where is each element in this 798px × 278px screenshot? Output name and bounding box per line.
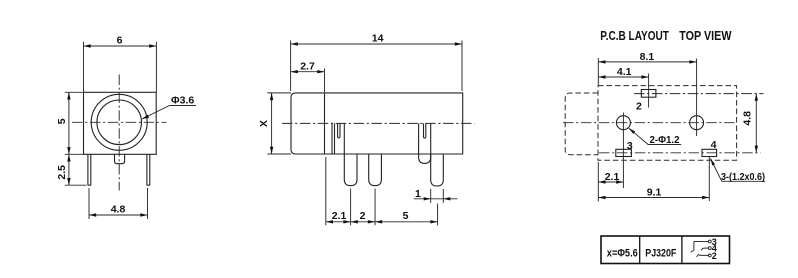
barrel face line	[324, 93, 326, 154]
horizontal center line	[72, 121, 167, 123]
svg-text:3-(1.2x0.6): 3-(1.2x0.6)	[721, 172, 765, 183]
dimension 5 arrows	[67, 92, 70, 99]
front center pin	[115, 154, 125, 163]
pcb body outline dashed	[598, 86, 737, 161]
svg-text:2.5: 2.5	[56, 165, 68, 180]
svg-text:2.1: 2.1	[332, 210, 347, 222]
dimension 4.8 extension lines	[89, 188, 148, 219]
svg-text:2-Φ1.2: 2-Φ1.2	[650, 134, 680, 146]
svg-text:9.1: 9.1	[647, 186, 662, 198]
dimension 8.1 arrows	[598, 60, 605, 63]
inner circle phi3.6 hole	[97, 100, 142, 145]
pcb hole 2 (2-phi1.2)	[690, 116, 704, 130]
label 3-(1.2x0.6) leader	[711, 159, 766, 182]
bottom chain dimension line	[326, 221, 438, 223]
outer circle (bushing)	[91, 94, 147, 150]
dimension 14 extension lines	[291, 41, 462, 92]
pad 3	[616, 149, 632, 156]
side leg C	[431, 154, 444, 186]
jack schematic pin 3 arm	[691, 242, 694, 253]
svg-text:2.1: 2.1	[605, 171, 620, 183]
dimension 2.7 extension line	[324, 69, 326, 93]
dimension 2.7 line	[291, 71, 325, 73]
dimension 4.1 arrows	[598, 75, 605, 78]
left contact lines	[332, 123, 344, 154]
svg-text:PJ320F: PJ320F	[645, 248, 676, 260]
title block divider 1	[639, 236, 641, 264]
dimension 4.8 arrows	[89, 213, 96, 216]
dimension 9.1 arrows	[598, 196, 605, 199]
dimension 9.1 line	[598, 197, 709, 199]
svg-text:TOP VIEW: TOP VIEW	[679, 29, 731, 43]
jack schematic pin 3 line	[694, 241, 708, 243]
svg-text:X: X	[258, 120, 270, 127]
label phi3.6 arrowhead	[142, 115, 149, 119]
jack schematic pin 4 hook and line	[701, 248, 708, 250]
dimension 14 arrows	[291, 42, 298, 45]
side leg A	[344, 154, 357, 186]
pad2 row center line	[634, 93, 764, 95]
dimension 8.1 line	[598, 61, 696, 63]
front right leg	[147, 154, 150, 185]
svg-text:3: 3	[627, 140, 633, 152]
svg-text:5: 5	[56, 118, 68, 124]
svg-text:2: 2	[360, 210, 366, 222]
title block divider 2	[681, 236, 683, 264]
dimension 6 line	[84, 45, 157, 47]
svg-text:6: 6	[117, 35, 123, 47]
dimension 8.1 extension line	[597, 58, 599, 85]
front left leg	[88, 154, 91, 185]
dimension X arrows	[270, 93, 273, 100]
jack schematic pin 2 spring and line	[697, 255, 709, 257]
dimension 1 extension lines	[431, 189, 444, 203]
svg-text:14: 14	[372, 33, 384, 45]
vertical center line	[118, 75, 120, 191]
svg-text:5: 5	[403, 210, 409, 222]
chain arrows 2	[351, 220, 358, 223]
chain arrows 5	[375, 220, 382, 223]
dimension 4.8 line	[89, 214, 148, 216]
svg-text:P.C.B LAYOUT: P.C.B LAYOUT	[600, 29, 669, 43]
dimension 4.1 line	[598, 76, 648, 78]
svg-text:2: 2	[712, 251, 717, 261]
svg-text:x=Φ5.6: x=Φ5.6	[607, 248, 638, 260]
pads row center line	[599, 152, 761, 154]
dimension X extension lines	[267, 93, 291, 154]
svg-text:4.8: 4.8	[111, 203, 126, 215]
svg-text:4.1: 4.1	[617, 66, 632, 78]
svg-text:4.8: 4.8	[742, 111, 754, 126]
title block border	[601, 236, 730, 264]
pad 4	[702, 149, 717, 156]
jack schematic pin 2 circle	[708, 254, 711, 257]
label 2-phi1.2 arrowhead	[629, 128, 635, 134]
svg-text:4: 4	[711, 139, 717, 151]
svg-text:2: 2	[636, 100, 642, 112]
dimension 2.5 arrows	[67, 154, 70, 161]
front view body	[84, 92, 157, 154]
svg-text:8.1: 8.1	[640, 51, 655, 63]
label 2-phi1.2 leader	[629, 128, 681, 144]
side view body	[291, 93, 463, 154]
dimension 2.1 pcb arrows	[598, 180, 605, 183]
dimension 4.8 pcb line	[755, 94, 757, 153]
holes horizontal center line	[563, 122, 737, 124]
pcb left bottom extension line	[597, 162, 599, 202]
jack schematic pin 4 circle	[708, 247, 711, 250]
svg-text:2.7: 2.7	[300, 60, 315, 72]
svg-text:1: 1	[415, 188, 421, 200]
pad 2 vertical center line	[648, 74, 650, 108]
right contact slot	[424, 123, 426, 138]
dimension 5 line	[68, 92, 70, 154]
label phi3.6 leader line	[142, 106, 196, 120]
side view center line	[282, 122, 475, 124]
pcb hole 1 (2-phi1.2)	[616, 116, 630, 130]
pad 2	[641, 90, 656, 98]
hole2 vertical center line	[696, 59, 698, 137]
right contact line	[419, 123, 431, 163]
dimension 1 line	[414, 198, 458, 200]
left contact slot	[338, 123, 340, 137]
label 3-(1.2x0.6) arrowhead	[711, 159, 716, 166]
dimension 5 extension lines	[65, 92, 84, 154]
dimension 2.5 line	[68, 154, 70, 185]
jack schematic pin 3 circle	[708, 240, 711, 243]
dimension 14 line	[291, 43, 462, 45]
dimension 2.1 pcb line	[598, 181, 623, 183]
dimension 1 arrows	[424, 197, 431, 200]
dimension 6 arrows	[84, 44, 91, 47]
dimension 2.7 arrows	[291, 70, 298, 73]
bottom chain dimension extension lines	[326, 157, 438, 225]
svg-text:Φ3.6: Φ3.6	[171, 95, 194, 107]
pcb barrel tab dashed	[565, 93, 598, 155]
dimension 2.5 extension line	[65, 184, 87, 186]
dimension 6 extension lines	[84, 42, 157, 92]
pad 4 vertical extension line	[708, 157, 710, 202]
side leg B	[369, 154, 382, 186]
dimension 4.8 pcb arrows	[755, 94, 758, 101]
hole1 / pad3 vertical center line	[622, 113, 624, 189]
dimension X line	[271, 93, 273, 154]
chain arrows 2.1	[326, 220, 333, 223]
